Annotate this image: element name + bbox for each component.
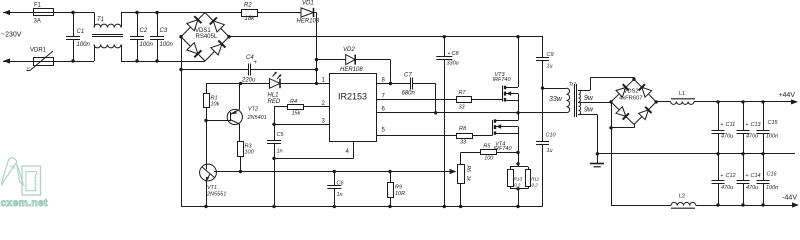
node rail C11 [716,100,719,103]
node bottom C12 [716,203,719,206]
wire pin5 to R8 [377,128,457,136]
wire minus rail vertical [611,102,613,205]
wire pin3 [274,119,329,125]
wire secondary top [578,77,635,90]
wire negative rail vertical [181,37,183,207]
svg-text:RS405L: RS405L [196,34,218,40]
svg-text:-44V: -44V [782,195,797,202]
svg-text:10k: 10k [211,102,220,108]
capacitor C4 220u [181,55,317,84]
svg-text:33: 33 [459,105,466,111]
wire mid to primary top [543,88,567,90]
svg-text:0.2: 0.2 [514,182,521,187]
svg-text:R7: R7 [459,90,467,96]
node pin8 [389,82,392,85]
wire -44V rail [696,195,799,208]
wire R1 to VT2 base [206,120,230,122]
transistor VT2 2N5401 [227,83,267,141]
wire vcc supply [206,83,270,85]
watermark cxem.net logo [2,158,41,195]
svg-text:VD1: VD1 [302,1,314,7]
resistor R3 100 [238,142,255,172]
svg-text:Tr1: Tr1 [569,82,577,88]
svg-text:100n: 100n [77,42,91,48]
svg-text:C1: C1 [77,29,85,35]
node VDS2 left vertex [609,100,612,103]
wire VDR1 to node [53,61,94,63]
svg-text:100: 100 [484,155,494,161]
resistor R11 0.2 [510,167,540,207]
input terminal arrow top (~230V) [3,10,33,15]
capacitor C13 470u [737,102,762,154]
svg-text:R4: R4 [290,99,297,105]
svg-text:C16: C16 [767,172,778,178]
wire R2 to VD1 [257,12,301,14]
wire secondary bottom to ground [578,115,598,164]
svg-text:+: + [721,122,724,128]
svg-text:R6: R6 [465,166,471,173]
svg-text:100n: 100n [766,134,778,140]
svg-text:100: 100 [245,150,255,156]
capacitor C3 100n [150,13,174,62]
node VT4 source [516,151,519,154]
node C8 rail [443,205,446,208]
node bottom C14 [741,203,744,206]
wire VD2 anode [317,59,346,61]
svg-text:C9: C9 [547,52,554,58]
capacitor C15 100n [757,102,779,154]
node VS mosfet mid [516,111,519,114]
svg-text:VT2: VT2 [248,107,258,113]
svg-text:R8: R8 [459,126,467,132]
svg-text:R10: R10 [514,176,523,181]
wire ground mid rail [597,153,795,155]
transformer Tr1 primary 33w [549,82,576,113]
svg-text:C8: C8 [452,51,460,57]
svg-text:1n: 1n [337,192,343,198]
wire C5 to rail [274,158,276,206]
node bottom-C2 [135,59,138,62]
svg-text:220u: 220u [241,78,256,84]
svg-text:18k: 18k [245,16,256,22]
label ~230V [1,32,22,39]
diode VD1 HER108 [297,1,320,25]
node mid C15 [761,152,764,155]
node VDS2 right vertex [655,100,658,103]
svg-text:15k: 15k [292,111,301,117]
wire pin1 stub [317,78,330,84]
node C9 C10 mid [541,86,544,89]
svg-text:R5: R5 [483,144,491,150]
wire F1 to node [53,12,94,14]
capacitor C5 1n [267,124,284,158]
svg-text:L1: L1 [679,91,685,97]
svg-text:C6: C6 [337,181,345,187]
fuse F1 3A [33,2,54,24]
node pin4 com [272,157,275,160]
svg-text:3A: 3A [34,19,41,25]
svg-text:100n: 100n [140,42,154,48]
svg-text:C14: C14 [751,173,761,179]
svg-text:HL1: HL1 [268,93,279,99]
node R5 tap [388,170,391,173]
node rail C13 [741,100,744,103]
svg-text:1k: 1k [465,176,471,182]
svg-text:9w: 9w [584,95,594,102]
trimmer R9 wiper arrow [450,169,457,174]
svg-text:10R: 10R [395,191,405,197]
svg-text:VD2: VD2 [343,47,355,53]
svg-text:+: + [254,60,258,66]
svg-text:C11: C11 [726,122,736,128]
svg-text:HER108: HER108 [340,67,363,73]
wire pin7 to R7 [377,94,457,100]
node C6 tap [333,170,336,173]
node VD2 takeoff [315,58,318,61]
svg-text:IR2153: IR2153 [338,92,367,102]
svg-text:T1: T1 [97,17,104,23]
varistor VDR1 [27,48,54,71]
svg-text:4xFR607: 4xFR607 [619,95,643,101]
wire negative rail bottom [181,206,543,208]
svg-text:C3: C3 [160,28,168,34]
common-mode choke T1 [92,13,123,62]
svg-text:470u: 470u [721,185,733,191]
svg-text:VT1: VT1 [207,185,217,191]
wire R9 top to R6 [461,152,480,154]
node bottom-C1 [71,59,74,62]
node neg C4 [179,68,182,71]
svg-text:C5: C5 [277,132,285,138]
node C7 bottom [434,111,437,114]
svg-text:470u: 470u [746,134,758,140]
wire +310V bus [229,36,543,38]
LED HL1 RED [268,72,282,105]
capacitor C8 330u [436,37,459,207]
wire T1 to bridge bottom [121,61,205,63]
node VDS2 top vertex [632,78,635,81]
node pin1 [315,82,318,85]
capacitor C9 1u [536,37,554,88]
svg-text:100n: 100n [160,42,174,48]
node bus C8 [443,35,446,38]
svg-text:R2: R2 [244,3,252,9]
node bottom C16 [761,203,764,206]
svg-text:+: + [448,51,451,57]
svg-text:L2: L2 [679,193,685,199]
node R1 bottom [204,119,207,122]
op-amp U1 IR2153 [330,74,377,142]
svg-text:1u: 1u [547,64,553,70]
label VT4 [494,141,513,152]
resistor R4 15k [274,99,329,117]
transistor VT4 IRF740 [493,113,519,153]
wire VD2 to pin8 [355,60,390,84]
transformer Tr1 secondary 9w lower [579,102,594,115]
wire pin6 VS [377,107,567,113]
wire -44V rail pre [611,205,671,207]
node R5 rail [388,205,391,208]
wire LED to pin1 node [279,83,317,85]
svg-text:C10: C10 [546,133,557,139]
svg-text:9w: 9w [584,107,594,114]
node bridge left vertex [179,35,182,38]
trimmer R9 [458,152,471,206]
svg-text:2N5401: 2N5401 [247,115,267,121]
svg-text:100n: 100n [766,185,778,191]
svg-text:C15: C15 [768,120,779,126]
resistor R5 10R [388,172,406,207]
wire bridge top to R2 [205,12,241,14]
node R9 rail [459,205,462,208]
node top-C1 [71,11,74,14]
capacitor C2 100n [130,13,154,62]
svg-text:R9: R9 [395,185,402,191]
wire R7 to VT3 gate [472,99,503,101]
wire pin8 stub [377,78,391,84]
node bottom vertex jog [609,126,612,129]
capacitor C12 470u [712,154,736,205]
svg-text:+44V: +44V [778,92,795,99]
node rail C15 [761,100,764,103]
svg-text:1n: 1n [277,149,283,155]
capacitor C7 680n [391,73,436,113]
svg-text:F1: F1 [34,2,42,8]
svg-text:33w: 33w [549,96,563,103]
svg-text:680n: 680n [402,91,416,97]
node C5 rail [272,205,275,208]
capacitor C6 1n [327,172,344,207]
node VT2 emitter [239,82,242,85]
svg-text:C12: C12 [726,173,736,179]
svg-text:+: + [721,173,724,179]
svg-text:C7: C7 [404,73,412,79]
transformer core [575,84,577,117]
svg-text:+: + [746,122,749,128]
capacitor C11 470u [712,102,736,154]
resistor R7 33 [457,90,472,111]
svg-text:~230V: ~230V [1,32,22,39]
svg-text:VDS2: VDS2 [624,89,639,95]
inductor L2 [671,193,696,208]
capacitor C16 100n [757,154,779,205]
svg-text:1u: 1u [547,148,553,154]
resistor R8 33 [457,126,473,146]
diode VD2 HER108 [340,47,363,73]
svg-text:IRF740: IRF740 [493,77,512,83]
transistor VT3 IRF740 [493,37,519,113]
resistor R6 100 [481,144,519,162]
svg-text:RED: RED [268,99,281,105]
resistor R10 0.2 [508,152,529,188]
node VT1 emitter rail [204,205,207,208]
node ground rail start [596,152,599,155]
node top-C3 [155,11,158,14]
bridge rectifier VDS2 4xFR607 [611,79,656,124]
wire VD1 to corner [314,12,317,14]
node C4 wire [315,68,318,71]
node C6 rail [333,205,336,208]
node bus VT3 drain [516,35,519,38]
node bottom-C3 [155,59,158,62]
svg-text:2N5551: 2N5551 [206,192,226,198]
input terminal arrow bottom [3,58,34,63]
wire pin4 [274,142,354,159]
node mid C13 [741,152,744,155]
svg-text:cxem.net: cxem.net [1,197,48,209]
svg-text:C13: C13 [751,122,762,128]
svg-text:330u: 330u [447,61,459,67]
transistor VT1 2N5551 [200,121,241,207]
svg-text:VDR1: VDR1 [30,48,47,54]
wire bottom vertex jog [611,125,635,128]
inductor L1 [656,91,695,104]
capacitor C1 100n [66,13,91,62]
svg-text:+: + [746,173,749,179]
resistor R1 10k [204,83,220,120]
node pin3 [272,123,275,126]
ground [590,164,604,167]
resistor R2 18k [242,3,258,23]
svg-text:0.2: 0.2 [532,182,539,187]
node sense rail [516,205,519,208]
bridge rectifier VDS1 RS405L [181,13,229,62]
node mid C11 [716,152,719,155]
svg-text:470u: 470u [746,185,758,191]
svg-text:R11: R11 [531,176,539,181]
wire +44V rail [694,92,798,105]
wire vcc vertical [316,13,318,84]
capacitor C14 470u [737,154,761,205]
svg-text:C2: C2 [140,28,148,34]
wire T1 to bridge top [121,12,205,14]
wire R8 to VT4 gate [473,135,493,137]
node top-C2 [135,11,138,14]
wire secondary CT to left vertex [578,102,611,104]
node R3 bottom / VT1 base [239,170,242,173]
transformer Tr1 secondary 9w upper [579,90,594,102]
node bridge right vertex [227,35,230,38]
watermark cxem.net text [1,197,48,209]
svg-text:470u: 470u [721,134,733,140]
capacitor C10 1u [536,88,557,206]
svg-text:33: 33 [460,140,467,146]
wire base net [241,171,454,173]
wire R4 corner down [274,107,276,125]
